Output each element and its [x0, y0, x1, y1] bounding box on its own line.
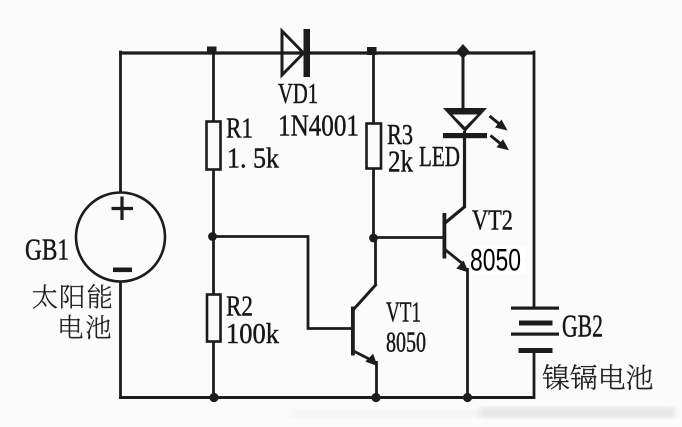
label 镍镉电池 (NiCd battery) — [543, 364, 653, 390]
battery GB2 plate short 1 — [519, 321, 553, 326]
svg-text:GB2: GB2 — [562, 308, 603, 344]
transistor VT2 emitter lead with arrow — [445, 250, 469, 273]
(scan artifact smear, decorative) — [290, 409, 480, 417]
svg-text:8050: 8050 — [386, 327, 426, 359]
battery GB2 plate long 1 — [511, 307, 559, 310]
LED triangle (anode) — [443, 108, 487, 132]
wire right rail lower (GB2 - to bottom rail) — [533, 350, 536, 399]
GB1 plus sign — [112, 197, 134, 221]
wire right rail upper (to GB2 +) — [533, 51, 536, 308]
node: top rail / R3 column junction — [367, 47, 377, 55]
wire VT1 emitter to bottom rail — [375, 361, 378, 398]
resistor R1 body — [207, 122, 221, 170]
node: top rail / LED column junction — [456, 44, 470, 59]
node B: R3/VT1-collector/VT2-base junction — [369, 234, 378, 243]
wire R1 to node A — [212, 169, 215, 296]
svg-text:1N4001: 1N4001 — [278, 109, 359, 143]
wire R3 to node B — [372, 168, 375, 239]
diode VD1 cathode bar — [304, 29, 311, 77]
wire left rail lower (GB1 negative lead) — [119, 281, 122, 398]
value 8050 (VT2, pasted sans label) — [470, 242, 526, 278]
wire bottom rail — [119, 396, 535, 399]
svg-text:1. 5k: 1. 5k — [227, 143, 279, 175]
transistor VT1 emitter lead with arrow — [354, 351, 378, 366]
LED light arrow 1 — [490, 116, 508, 131]
transistor VT2 collector lead — [445, 206, 466, 223]
transistor VT1 collector lead — [354, 284, 377, 310]
wire left rail upper (GB1 positive lead) — [119, 51, 122, 193]
label 太阳能 (solar) — [33, 284, 112, 308]
wire R3 column: top rail to R3 — [372, 52, 375, 124]
LED cathode bar — [443, 133, 487, 138]
label 电池 (battery) — [61, 315, 111, 339]
svg-text:VD1: VD1 — [278, 78, 318, 110]
solar battery GB1 circle — [76, 193, 165, 282]
node: top rail / R1 column junction — [207, 47, 217, 55]
transistor VT1 base bar — [351, 307, 355, 356]
svg-text:VT1: VT1 — [386, 297, 421, 329]
resistor R3 body — [367, 124, 382, 169]
svg-text:VT2: VT2 — [472, 205, 513, 237]
resistor R2 body — [207, 295, 221, 342]
wire node B to VT2 base — [374, 236, 444, 239]
svg-text:LED: LED — [419, 141, 460, 173]
wire LED cathode down to VT2 collector — [463, 131, 466, 207]
battery GB2 plate short 2 — [519, 348, 553, 353]
wire R1 column: top rail to R1 — [212, 52, 215, 122]
wire R2 to bottom rail — [212, 341, 215, 398]
wire LED column: top rail to LED anode — [462, 52, 465, 112]
svg-text:2k: 2k — [388, 144, 413, 179]
wire node A to VT1 base (three segments) — [214, 237, 353, 329]
svg-text:100k: 100k — [226, 318, 279, 350]
svg-text:GB1: GB1 — [25, 232, 69, 267]
svg-text:R1: R1 — [226, 113, 253, 145]
wire VT2 emitter to bottom rail — [466, 268, 469, 398]
transistor VT2 base bar — [443, 213, 447, 259]
node: bottom rail / R2 junction — [209, 393, 218, 402]
LED light arrow 2 — [491, 136, 510, 151]
GB1 minus sign — [113, 268, 132, 273]
wire top rail — [119, 51, 535, 54]
battery GB2 plate long 2 — [511, 333, 559, 336]
node: bottom rail / VT1 emitter junction — [371, 393, 380, 402]
svg-text:8050: 8050 — [470, 242, 521, 278]
node A: R1/R2/VT1-base junction — [208, 232, 217, 241]
wire node B down to VT1 collector — [374, 238, 377, 285]
diode VD1 triangle — [282, 31, 304, 75]
node: bottom rail / VT2 emitter junction — [463, 393, 472, 402]
